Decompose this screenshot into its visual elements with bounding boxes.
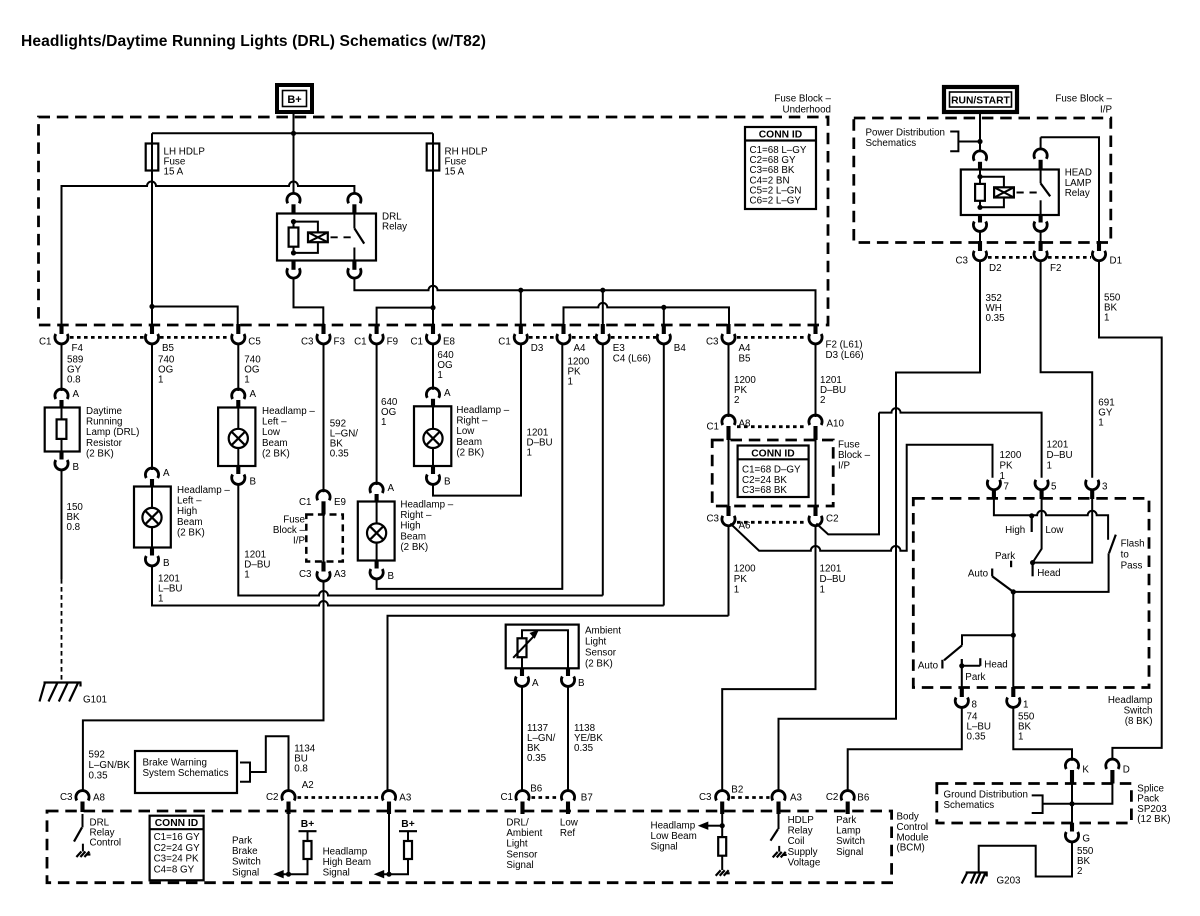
wire A6 to BCM low line: [728, 526, 730, 616]
switch lower selector blade: [944, 645, 962, 660]
component ambient light sensor: [506, 625, 579, 669]
wire B4 drop: [663, 307, 665, 324]
svg-text:A: A: [444, 388, 451, 399]
svg-text:Brake Warning: Brake Warning: [143, 758, 207, 769]
svg-text:A10: A10: [827, 419, 845, 430]
connector BCM A3 park brake: [382, 791, 395, 801]
svg-text:Lamp: Lamp: [836, 826, 861, 837]
connector D1 ip: [1097, 241, 1101, 251]
svg-text:B: B: [444, 477, 451, 488]
connector BCM A3 hdlp: [772, 791, 785, 801]
switch BCM hdlp relay driver: [778, 814, 780, 829]
svg-text:B7: B7: [581, 793, 593, 804]
svg-text:Resistor: Resistor: [86, 438, 123, 449]
svg-text:E8: E8: [443, 337, 456, 348]
svg-text:Headlamp: Headlamp: [1108, 695, 1153, 706]
svg-text:C3: C3: [955, 256, 968, 267]
junction HDLP coil bottom: [977, 205, 982, 210]
node park contact tick: [1010, 561, 1012, 568]
resistor HDLP relay coil suppressor: [975, 184, 985, 201]
svg-text:(2 BK): (2 BK): [585, 659, 613, 670]
connector row1 E8: [431, 324, 435, 334]
wire DRL relay actuation dashes: [331, 236, 353, 238]
svg-text:HDLP: HDLP: [788, 815, 815, 826]
svg-text:Body: Body: [897, 812, 919, 823]
wire common to pin1: [1012, 635, 1014, 687]
wire HDLP coil to D2: [979, 232, 981, 242]
svg-text:B5: B5: [162, 343, 175, 354]
svg-text:Power Distribution: Power Distribution: [866, 128, 946, 139]
svg-text:C3=24 PK: C3=24 PK: [154, 854, 199, 865]
svg-text:A4: A4: [574, 343, 587, 354]
svg-text:1200: 1200: [1000, 450, 1022, 461]
wire BCM B6-B7 dots: [532, 796, 559, 799]
svg-text:High: High: [1005, 525, 1025, 536]
wire E3 drop: [602, 290, 604, 324]
svg-text:1: 1: [1018, 732, 1023, 743]
wire E3 to line2: [602, 344, 604, 596]
svg-text:Relay: Relay: [382, 222, 407, 233]
wire B+ to bus: [293, 112, 295, 133]
junction BCM B2: [720, 823, 725, 828]
wire park to pin8: [961, 669, 963, 688]
svg-text:C2=24 GY: C2=24 GY: [154, 843, 200, 854]
wire E8 to RH low beam: [432, 344, 434, 390]
wire B4 to line3: [663, 344, 665, 606]
connector DRL resistor B: [59, 452, 63, 460]
switch HDLP relay contact: [1040, 170, 1042, 183]
svg-text:D: D: [1123, 765, 1130, 776]
junction bus290 E3: [600, 288, 605, 293]
conn id table mid: [738, 446, 809, 498]
svg-text:A: A: [73, 389, 80, 400]
svg-text:Brake: Brake: [232, 846, 258, 857]
svg-text:(2 BK): (2 BK): [262, 448, 290, 459]
svg-text:Schematics: Schematics: [866, 138, 917, 149]
svg-text:E3: E3: [613, 343, 626, 354]
relay DRL box: [277, 214, 376, 261]
svg-text:1: 1: [244, 375, 249, 386]
connector DRL resistor A: [55, 389, 68, 399]
junction RH fuse branch: [430, 305, 435, 310]
svg-text:C3: C3: [706, 337, 719, 348]
svg-text:C3: C3: [301, 337, 314, 348]
junction splice: [1069, 801, 1074, 806]
connector RH high beam B: [375, 561, 379, 569]
wire sensor B to B7: [567, 687, 569, 791]
connector row1 F3: [321, 324, 325, 334]
svg-text:Coil: Coil: [788, 836, 805, 847]
wire BCM parkbrake join: [278, 859, 308, 874]
svg-text:Low: Low: [560, 818, 579, 829]
svg-text:G203: G203: [997, 876, 1022, 887]
connector BCM B7: [561, 791, 574, 801]
svg-text:Switch: Switch: [836, 836, 865, 847]
svg-text:D1: D1: [1110, 256, 1123, 267]
svg-text:B+: B+: [301, 819, 314, 830]
svg-text:PK: PK: [734, 574, 748, 585]
svg-text:Control: Control: [90, 838, 122, 849]
connector row1 C4 (L66): [601, 324, 605, 334]
svg-text:Headlamp: Headlamp: [651, 821, 696, 832]
svg-text:C3=68 BK: C3=68 BK: [742, 485, 787, 496]
connector RH high beam A: [370, 483, 383, 493]
svg-text:Relay: Relay: [788, 826, 813, 837]
svg-text:(2 BK): (2 BK): [177, 527, 205, 538]
connector RH low beam A: [426, 388, 439, 398]
connector LH low beam B: [236, 466, 240, 474]
svg-text:Signal: Signal: [836, 847, 863, 858]
svg-text:D2: D2: [989, 263, 1002, 274]
svg-text:D–BU: D–BU: [1047, 450, 1073, 461]
junction DRL coil top: [291, 219, 296, 224]
svg-text:Signal: Signal: [651, 842, 678, 853]
svg-text:A3: A3: [334, 569, 347, 580]
node B+ battery feed: [277, 85, 312, 112]
svg-text:Auto: Auto: [918, 661, 939, 672]
svg-text:Block –: Block –: [273, 525, 306, 536]
fuse block IP outline: [854, 118, 1111, 243]
wire BCM A3hb input: [388, 814, 390, 874]
svg-text:Left –: Left –: [262, 417, 287, 428]
splice pack outline: [937, 784, 1132, 824]
wire BCM C2-A3 dots: [298, 796, 381, 799]
resistor BCM lowbeam load: [718, 837, 726, 856]
junction B+ bus: [291, 131, 296, 136]
connector LH high beam A: [145, 468, 158, 478]
svg-text:Park: Park: [836, 815, 856, 826]
connector C3-A3 ip: [321, 562, 325, 572]
wire F2 to A10 mid: [815, 344, 817, 417]
wire A10 inside mid: [815, 440, 817, 506]
svg-text:K: K: [1082, 765, 1089, 776]
switch DRL relay contact: [353, 214, 355, 229]
conn id table BCM: [150, 816, 204, 881]
connector row1 B4: [662, 324, 666, 334]
svg-text:Low: Low: [262, 427, 281, 438]
svg-text:Underhood: Underhood: [783, 105, 831, 116]
resistor DRL element: [57, 419, 67, 439]
junction park head tie: [959, 663, 964, 668]
svg-text:Ref: Ref: [560, 828, 576, 839]
svg-text:D3: D3: [531, 343, 544, 354]
resistor BCM parkbrake pullup: [304, 841, 312, 859]
svg-text:Headlamp –: Headlamp –: [400, 500, 453, 511]
wire DRL relay coil loop: [294, 222, 318, 253]
svg-text:1: 1: [820, 585, 825, 596]
svg-text:Low Beam: Low Beam: [651, 831, 697, 842]
wire lower common stub: [962, 635, 1013, 645]
svg-text:CONN ID: CONN ID: [155, 818, 198, 829]
svg-text:Switch: Switch: [1124, 706, 1153, 717]
junction lower common: [1011, 633, 1016, 638]
node auto contact tick 2: [941, 660, 943, 669]
svg-text:1: 1: [568, 377, 573, 388]
connector row1 C5: [236, 324, 240, 334]
svg-text:Beam: Beam: [262, 438, 288, 449]
svg-text:Headlamp: Headlamp: [323, 847, 368, 858]
resistor DRL relay coil suppressor: [289, 228, 299, 247]
connector row1 D3: [519, 324, 523, 334]
svg-text:A3: A3: [399, 793, 412, 804]
svg-text:A4: A4: [739, 343, 752, 354]
svg-text:Supply: Supply: [788, 847, 818, 858]
svg-text:B4: B4: [674, 343, 687, 354]
connector row1 B5: [726, 324, 730, 334]
wire RH fuse to F9: [377, 308, 433, 324]
svg-text:RUN/START: RUN/START: [951, 96, 1010, 107]
svg-text:Head: Head: [984, 660, 1007, 671]
svg-text:Right –: Right –: [400, 510, 432, 521]
svg-text:1: 1: [244, 570, 249, 581]
wire park head tie: [962, 665, 981, 667]
svg-text:2: 2: [734, 395, 739, 406]
connector row1 D3 (L66): [813, 324, 817, 334]
svg-text:Ambient: Ambient: [585, 626, 621, 637]
connector HDLP relay pin 87 out: [978, 215, 982, 223]
svg-text:1201: 1201: [1047, 440, 1069, 451]
wire high beam signal line4: [388, 616, 729, 791]
svg-text:G101: G101: [83, 695, 107, 706]
connector A10 mid: [809, 415, 822, 425]
svg-text:1: 1: [1098, 418, 1103, 429]
svg-text:C2: C2: [266, 792, 279, 803]
junction HDLP coil top: [977, 174, 982, 179]
connector splice G: [1070, 823, 1074, 832]
arrow BCM parkbrake signal: [273, 870, 284, 878]
component brake warning box: [135, 751, 237, 793]
svg-text:Park: Park: [232, 836, 252, 847]
svg-text:C1: C1: [500, 792, 513, 803]
svg-text:0.35: 0.35: [527, 753, 547, 764]
svg-text:5: 5: [1051, 482, 1057, 493]
svg-text:A8: A8: [93, 793, 106, 804]
svg-text:1: 1: [1104, 313, 1109, 324]
svg-text:System Schematics: System Schematics: [143, 768, 229, 779]
wire conn A6-C2 dots: [737, 521, 807, 524]
fuse LH HDLP 15A: [151, 133, 153, 324]
svg-text:C2: C2: [826, 792, 839, 803]
svg-text:C1: C1: [498, 337, 511, 348]
junction DRL coil bottom: [291, 250, 296, 255]
wire B5 to LH high beam: [151, 344, 153, 470]
wire DRL switch bus y290: [354, 278, 815, 324]
wire HDLP relay coil loop: [980, 170, 1004, 207]
svg-text:C6=2 L–GY: C6=2 L–GY: [750, 196, 802, 207]
ground BCM hdlp driver: [773, 852, 787, 858]
wire pin7 high contact feed: [994, 499, 1108, 540]
svg-text:(2 BK): (2 BK): [86, 448, 114, 459]
wire HDLP switch to F2 row: [1040, 232, 1042, 242]
junction selector common: [1011, 589, 1016, 594]
lamp headlamp left low beam: [218, 408, 255, 467]
fuse RH HDLP 15A: [432, 133, 434, 324]
svg-text:Daytime: Daytime: [86, 406, 122, 417]
wire BCM B2-A3 dots: [731, 796, 769, 799]
svg-text:F3: F3: [334, 337, 346, 348]
svg-text:B: B: [578, 678, 585, 689]
svg-text:1201: 1201: [820, 564, 842, 575]
wire flash to pass to common: [1013, 553, 1108, 592]
wire A6 to park pin7: [730, 445, 992, 551]
svg-text:Signal: Signal: [323, 868, 350, 879]
svg-text:A: A: [250, 389, 257, 400]
wire pin1 to splice K: [1013, 708, 1072, 761]
svg-text:L–GN/BK: L–GN/BK: [89, 760, 131, 771]
arrow BCM highbeam signal: [374, 870, 385, 878]
wire LH high beam to B4 line3: [152, 566, 664, 606]
svg-text:0.8: 0.8: [67, 522, 81, 533]
headlamp switch outline: [913, 498, 1149, 687]
svg-text:Auto: Auto: [968, 569, 989, 580]
svg-text:Block –: Block –: [838, 450, 871, 461]
connector row1 F9: [375, 324, 379, 334]
svg-text:High Beam: High Beam: [323, 857, 371, 868]
svg-text:Park: Park: [995, 551, 1015, 562]
svg-text:Sensor: Sensor: [506, 849, 538, 860]
resistor BCM highbeam pullup: [404, 841, 412, 859]
svg-text:A3: A3: [790, 793, 803, 804]
svg-text:0.35: 0.35: [89, 770, 109, 781]
svg-text:A: A: [388, 483, 395, 494]
svg-text:1: 1: [1047, 461, 1052, 472]
connector row1 F4: [59, 324, 63, 334]
bracket brake warning ref: [240, 763, 250, 782]
svg-text:I/P: I/P: [293, 536, 305, 547]
svg-text:Head: Head: [1037, 568, 1060, 579]
wire conn row2 dots: [988, 256, 1091, 259]
svg-text:Flash: Flash: [1121, 539, 1145, 550]
wire conn row1 dotted C1-C5: [70, 336, 230, 339]
svg-text:0.8: 0.8: [67, 375, 81, 386]
svg-text:Headlights/Daytime Running Lig: Headlights/Daytime Running Lights (DRL) …: [21, 33, 486, 50]
wire brake warning to A2: [250, 736, 289, 790]
connector HDLP relay pin 86: [973, 151, 986, 161]
svg-text:CONN ID: CONN ID: [751, 448, 794, 459]
switch DRL relay control driver: [82, 814, 84, 827]
wire RH high beam to A4: [377, 344, 563, 589]
connector headlamp switch pin 8: [960, 687, 964, 697]
bracket power distribution ref: [950, 132, 958, 152]
connector headlamp switch pin 5: [1035, 480, 1048, 490]
wire DRL coil to F3: [294, 278, 324, 324]
wire headlamp relay switch feed: [1041, 137, 1099, 241]
svg-text:D3 (L66): D3 (L66): [826, 350, 864, 361]
wire C2 to low pin5: [816, 408, 1041, 534]
connector C3-D2: [978, 241, 982, 251]
wire D1 550 BK right margin: [1099, 261, 1162, 759]
svg-text:Right –: Right –: [456, 416, 488, 427]
connector DRL relay pin 87 out: [291, 261, 295, 270]
svg-text:0.35: 0.35: [574, 743, 594, 754]
switch headlamp selector blade: [992, 576, 1013, 592]
svg-text:F2: F2: [1050, 263, 1061, 274]
connector C3-A6 mid: [726, 506, 730, 516]
svg-text:2: 2: [1077, 866, 1082, 877]
svg-text:PK: PK: [1000, 461, 1014, 472]
wire RUN/START drop: [979, 112, 981, 151]
svg-text:(2 BK): (2 BK): [456, 447, 484, 458]
svg-text:1: 1: [158, 594, 163, 605]
svg-text:Park: Park: [965, 672, 985, 683]
svg-text:Beam: Beam: [177, 517, 203, 528]
svg-text:1: 1: [1023, 700, 1028, 711]
wire BCM C2 input: [288, 814, 290, 874]
wire 150 BK dashed to G101: [61, 579, 63, 681]
wire F9 to RH high beam: [376, 344, 378, 485]
connector ambient sensor A: [520, 668, 524, 676]
wire D3 drop: [520, 290, 522, 324]
svg-text:C1: C1: [706, 422, 719, 433]
svg-text:CONN ID: CONN ID: [759, 130, 802, 141]
svg-text:C1: C1: [299, 497, 312, 508]
junction power distribution tap: [977, 139, 982, 144]
svg-text:2: 2: [820, 395, 825, 406]
conn id table underhood: [745, 127, 816, 209]
svg-text:Low: Low: [1045, 525, 1064, 536]
ground BCM drl control: [76, 852, 90, 858]
wire head node to pin3: [1033, 499, 1093, 563]
ground BCM lowbeam: [716, 870, 730, 876]
coil HDLP relay winding: [994, 187, 1014, 197]
svg-text:592: 592: [89, 750, 105, 761]
wire BCM highbeam join: [379, 859, 409, 874]
resistor ambient light sensor element: [518, 638, 527, 657]
svg-text:B+: B+: [287, 94, 301, 106]
svg-text:Schematics: Schematics: [944, 800, 995, 811]
wire ambient sensor arrow: [513, 634, 536, 658]
svg-text:Module: Module: [897, 832, 930, 843]
svg-text:Fuse Block –: Fuse Block –: [1055, 94, 1112, 105]
svg-text:C1: C1: [39, 337, 52, 348]
svg-text:C3: C3: [699, 792, 712, 803]
svg-text:1: 1: [734, 585, 739, 596]
svg-text:Headlamp –: Headlamp –: [177, 485, 230, 496]
wire splice bus: [1043, 784, 1113, 823]
svg-text:0.35: 0.35: [986, 313, 1006, 324]
wire 592 to BCM A8: [83, 581, 324, 790]
wire C5 to LH low beam: [237, 344, 239, 391]
node head contact tick: [1031, 563, 1033, 577]
arrow BCM lowbeam signal: [708, 825, 722, 827]
node high contact tick: [1031, 516, 1033, 532]
svg-text:C4=8 GY: C4=8 GY: [154, 864, 195, 875]
svg-text:1: 1: [158, 375, 163, 386]
connector DRL relay pin 86: [287, 193, 300, 203]
svg-text:B: B: [250, 477, 257, 488]
svg-text:Beam: Beam: [400, 531, 426, 542]
connector row1 A4: [561, 324, 565, 334]
wire HDLP relay actuation dashes: [1017, 192, 1039, 194]
svg-text:Running: Running: [86, 417, 123, 428]
svg-text:B+: B+: [401, 819, 414, 830]
wire 150 BK solid: [61, 470, 63, 579]
wire pin8 to BCM B6: [848, 708, 962, 791]
wire A8 inside mid: [728, 440, 730, 506]
connector HDLP relay pin 30: [1034, 149, 1047, 159]
svg-text:DRL/: DRL/: [506, 818, 529, 829]
svg-text:F2 (L61): F2 (L61): [826, 340, 863, 351]
connector headlamp switch pin 1: [1011, 687, 1015, 697]
node park contact tick 2: [961, 659, 963, 669]
wire G to G203: [979, 842, 1072, 877]
svg-text:B: B: [163, 558, 170, 569]
svg-text:1: 1: [437, 370, 442, 381]
svg-text:Ambient: Ambient: [506, 828, 542, 839]
wire C2 to BCM b2: [722, 526, 815, 791]
svg-text:1: 1: [381, 417, 386, 428]
svg-text:1200: 1200: [734, 564, 756, 575]
